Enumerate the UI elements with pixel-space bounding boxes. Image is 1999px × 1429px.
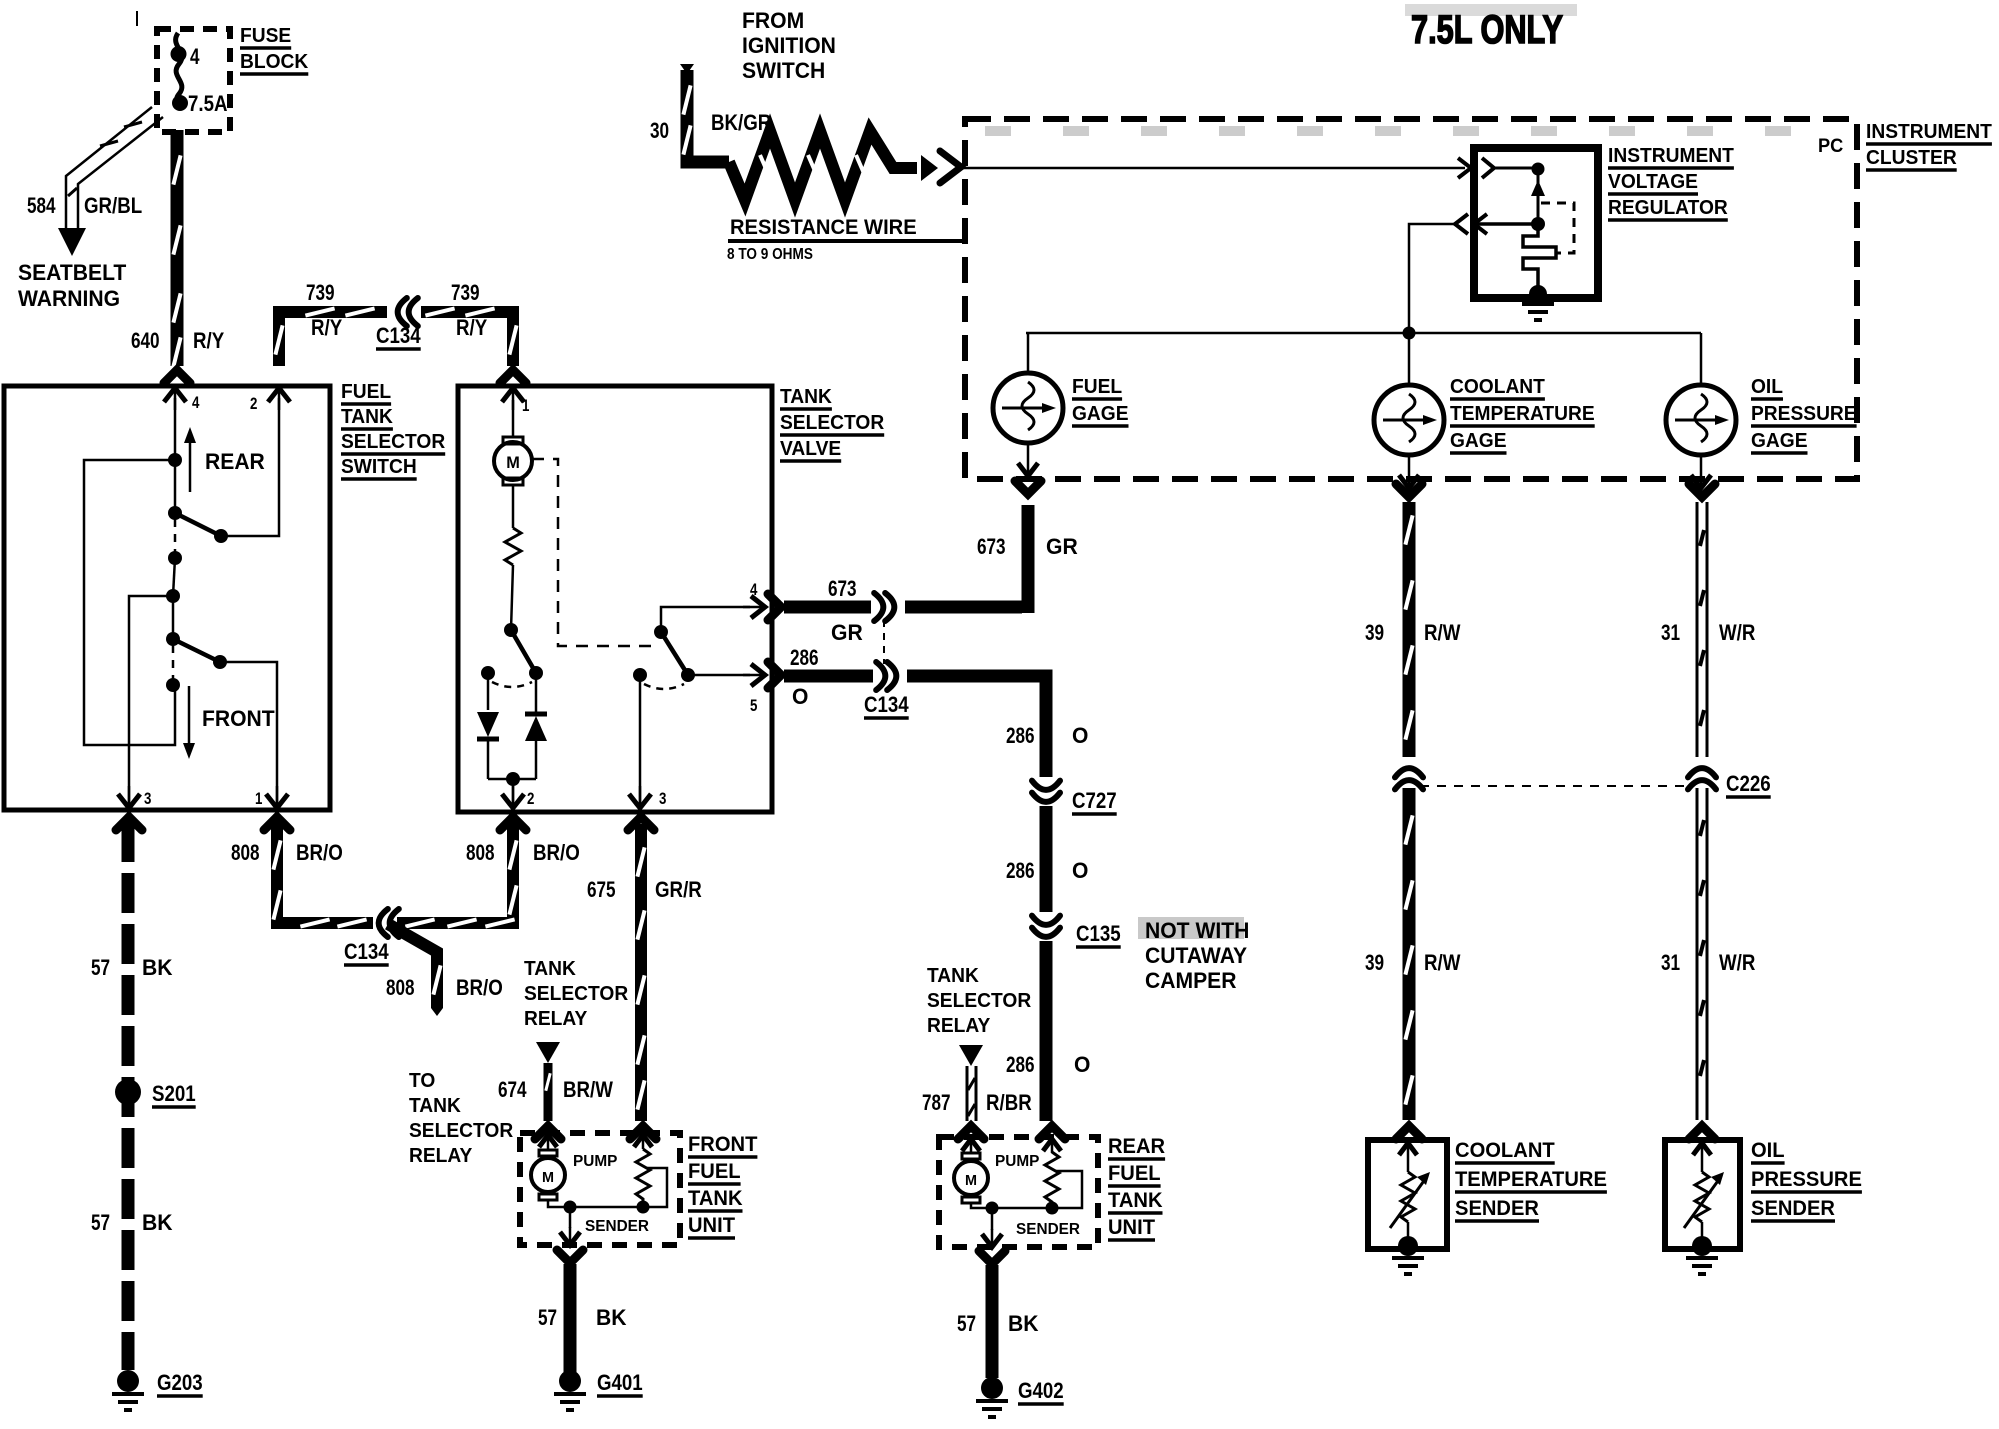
wire 39 R/W lower	[1405, 788, 1412, 1120]
instrument cluster dashed box	[965, 119, 1857, 479]
svg-text:C135: C135	[1076, 921, 1121, 946]
svg-text:GAGE: GAGE	[1072, 403, 1129, 425]
front fuel tank unit box	[520, 1126, 680, 1245]
svg-text:FUSE: FUSE	[240, 25, 291, 47]
coolant temperature sender label	[1455, 1139, 1607, 1221]
connector C727	[1032, 777, 1117, 814]
svg-text:SELECTOR: SELECTOR	[780, 412, 885, 434]
label from ignition switch	[742, 8, 836, 83]
labels 673 GR	[828, 534, 1078, 645]
wire 808 BR/O from switch pin 1 to C134	[116, 817, 373, 927]
svg-text:RELAY: RELAY	[409, 1145, 473, 1167]
wire 673 GR to fuel gage	[1022, 505, 1035, 613]
svg-text:BK: BK	[142, 1210, 173, 1235]
svg-text:SENDER: SENDER	[1016, 1221, 1080, 1238]
wire 31 W/R upper	[1689, 484, 1715, 762]
regulator internals	[1455, 158, 1574, 303]
wire 57 BK to G401	[557, 1250, 583, 1372]
rear fuel tank unit box	[939, 1126, 1098, 1247]
svg-text:R/W: R/W	[1424, 620, 1461, 645]
svg-text:SELECTOR: SELECTOR	[927, 990, 1032, 1012]
svg-text:GR: GR	[831, 620, 863, 645]
instrument cluster label	[1866, 121, 1992, 170]
switch pin 3	[118, 786, 151, 808]
label tank selector relay front	[524, 958, 629, 1030]
svg-text:787: 787	[922, 1090, 951, 1115]
svg-text:3: 3	[659, 789, 666, 808]
svg-text:M: M	[965, 1172, 977, 1189]
svg-text:PRESSURE: PRESSURE	[1751, 403, 1857, 425]
label 584 GR/BL	[27, 193, 142, 218]
svg-text:1: 1	[255, 789, 262, 808]
FRONT arrow	[183, 686, 275, 759]
C226 dashed link and label	[1420, 771, 1771, 797]
svg-text:RELAY: RELAY	[927, 1015, 991, 1037]
svg-text:BK/GR: BK/GR	[711, 110, 771, 135]
wire 286 O lower	[1040, 941, 1053, 1121]
svg-text:M: M	[506, 453, 520, 472]
ground G402	[976, 1377, 1064, 1417]
svg-text:31: 31	[1661, 620, 1680, 645]
coolant sender ground	[1392, 1256, 1424, 1260]
wire 57 BK dashed from switch pin 3	[122, 822, 135, 1370]
svg-text:SEATBELT: SEATBELT	[18, 260, 127, 285]
svg-text:BK: BK	[596, 1305, 627, 1330]
connector at switch pin 4	[164, 370, 190, 383]
label tank selector relay rear	[927, 965, 1032, 1037]
labels 39 R/W lower	[1365, 950, 1461, 975]
svg-text:FUEL: FUEL	[1072, 376, 1122, 398]
svg-text:OIL: OIL	[1751, 376, 1783, 398]
labels 57 BK left	[91, 955, 173, 1235]
svg-text:GR/BL: GR/BL	[84, 193, 142, 218]
REAR arrow	[184, 427, 265, 492]
regulator feed wire	[1409, 224, 1455, 333]
splice S201	[115, 1079, 196, 1107]
front unit output	[560, 1207, 580, 1245]
svg-text:39: 39	[1365, 620, 1384, 645]
svg-text:GAGE: GAGE	[1751, 430, 1808, 452]
svg-text:SELECTOR: SELECTOR	[524, 983, 629, 1005]
fuse block	[157, 29, 230, 132]
svg-text:PC: PC	[1818, 136, 1844, 157]
svg-text:INSTRUMENT: INSTRUMENT	[1608, 145, 1734, 167]
svg-text:57: 57	[91, 955, 110, 980]
title 7.5L ONLY	[1405, 4, 1577, 52]
connector C226 on 39 wire	[1401, 757, 1417, 793]
svg-text:57: 57	[538, 1305, 557, 1330]
labels 286 O middle	[1006, 858, 1088, 883]
labels 739 R/Y C134	[306, 280, 487, 349]
wire 286 O from valve pin 5	[768, 662, 1046, 785]
switch internal wiring	[84, 398, 279, 808]
svg-text:SELECTOR: SELECTOR	[341, 431, 446, 453]
coolant temperature gage	[1374, 333, 1444, 488]
valve pin 5	[743, 664, 765, 715]
svg-text:808: 808	[231, 840, 260, 865]
wire 57 BK to G402	[979, 1251, 1005, 1378]
oil pressure gage	[1666, 333, 1736, 488]
svg-text:SENDER: SENDER	[1455, 1197, 1539, 1220]
svg-text:TEMPERATURE: TEMPERATURE	[1455, 1168, 1607, 1191]
svg-text:PRESSURE: PRESSURE	[1751, 1168, 1862, 1191]
svg-text:2: 2	[527, 789, 534, 808]
svg-text:640: 640	[131, 328, 160, 353]
connector at valve pin 1	[500, 370, 526, 383]
svg-text:O: O	[1072, 723, 1088, 748]
svg-text:COOLANT: COOLANT	[1450, 376, 1545, 398]
label 674 BR/W	[498, 1077, 613, 1102]
svg-text:REAR: REAR	[205, 449, 265, 474]
svg-text:808: 808	[386, 975, 415, 1000]
connector above oil sender	[1689, 1126, 1715, 1139]
oil pressure sender box	[1665, 1140, 1740, 1256]
valve diode left	[477, 673, 499, 779]
fuse block label	[240, 25, 309, 74]
labels 39 R/W upper	[1365, 620, 1461, 645]
svg-text:GAGE: GAGE	[1450, 430, 1507, 452]
fuel gage	[993, 333, 1063, 476]
rear sender	[992, 1139, 1082, 1215]
svg-text:BK: BK	[142, 955, 173, 980]
front fuel tank unit label	[688, 1133, 758, 1238]
svg-text:PUMP: PUMP	[573, 1153, 618, 1170]
rear unit output	[982, 1208, 1002, 1247]
svg-text:BLOCK: BLOCK	[240, 51, 309, 73]
svg-text:O: O	[792, 684, 808, 709]
label 30 BK/GR	[650, 110, 771, 143]
svg-text:5: 5	[750, 696, 757, 715]
oil pressure gage label	[1751, 376, 1857, 453]
connector C134 on 808 wires	[374, 915, 380, 932]
wire 584 GR/BL to seatbelt warning	[58, 107, 163, 256]
svg-text:4: 4	[750, 580, 758, 599]
svg-text:FROM: FROM	[742, 8, 804, 33]
switch pin 1	[255, 786, 288, 808]
svg-text:57: 57	[91, 1210, 110, 1235]
fuel tank selector switch label	[341, 381, 446, 479]
svg-text:673: 673	[828, 576, 857, 601]
labels 31 W/R upper	[1661, 620, 1755, 645]
svg-text:WARNING: WARNING	[18, 286, 120, 311]
svg-text:R/Y: R/Y	[456, 315, 487, 340]
svg-text:SWITCH: SWITCH	[341, 456, 417, 478]
svg-text:TANK: TANK	[688, 1187, 743, 1210]
svg-text:673: 673	[977, 534, 1006, 559]
valve pin 2 node	[488, 772, 536, 808]
svg-text:FUEL: FUEL	[688, 1160, 741, 1183]
instrument voltage regulator label	[1608, 145, 1734, 220]
svg-text:584: 584	[27, 193, 56, 218]
svg-text:CUTAWAY: CUTAWAY	[1145, 943, 1247, 968]
svg-text:57: 57	[957, 1311, 976, 1336]
svg-text:M: M	[542, 1169, 554, 1186]
valve resistor	[505, 528, 521, 565]
label 57 BK G401	[538, 1305, 627, 1330]
connector above coolant sender	[1396, 1126, 1422, 1139]
front pump motor	[531, 1135, 577, 1214]
valve diode right	[525, 673, 547, 779]
svg-text:808: 808	[466, 840, 495, 865]
svg-text:GR: GR	[1046, 534, 1078, 559]
svg-text:FUEL: FUEL	[341, 381, 391, 403]
switch pin 4	[164, 388, 200, 412]
switch pin 2	[250, 388, 290, 413]
svg-text:4: 4	[190, 44, 200, 69]
svg-text:FRONT: FRONT	[202, 706, 275, 731]
wire 39 R/W upper	[1396, 484, 1422, 762]
svg-text:COOLANT: COOLANT	[1455, 1139, 1555, 1162]
svg-text:G402: G402	[1018, 1378, 1064, 1403]
seatbelt warning label	[18, 260, 127, 311]
connector C134 on 739 wire	[387, 304, 421, 320]
svg-text:NOT WITH: NOT WITH	[1145, 918, 1249, 943]
valve pin 1	[502, 388, 529, 415]
svg-text:39: 39	[1365, 950, 1384, 975]
svg-text:GR/R: GR/R	[655, 877, 702, 902]
label 675 GR/R	[587, 877, 702, 902]
svg-text:286: 286	[1006, 858, 1035, 883]
svg-text:3: 3	[144, 789, 151, 808]
tank selector relay terminal front	[536, 1042, 560, 1063]
svg-text:TANK: TANK	[341, 406, 393, 428]
svg-text:BR/O: BR/O	[533, 840, 580, 865]
svg-text:7.5L ONLY: 7.5L ONLY	[1411, 8, 1563, 52]
tank selector relay terminal rear	[959, 1045, 983, 1066]
instrument voltage regulator box	[1474, 148, 1598, 298]
svg-text:VALVE: VALVE	[780, 438, 841, 460]
label resistance wire	[727, 216, 968, 263]
svg-text:286: 286	[1006, 1052, 1035, 1077]
svg-text:VOLTAGE: VOLTAGE	[1608, 171, 1698, 193]
valve right switch	[633, 607, 750, 689]
labels 286 O lower	[1006, 1052, 1090, 1077]
resistance wire	[729, 131, 938, 200]
svg-text:8 TO 9 OHMS: 8 TO 9 OHMS	[727, 246, 813, 263]
valve dashed link	[532, 459, 658, 646]
svg-text:TANK: TANK	[780, 386, 832, 408]
svg-text:TEMPERATURE: TEMPERATURE	[1450, 403, 1595, 425]
svg-text:286: 286	[1006, 723, 1035, 748]
wire to voltage regulator	[961, 167, 1465, 170]
fuel gage label	[1072, 376, 1129, 426]
tank selector valve label	[780, 386, 885, 461]
svg-text:C727: C727	[1072, 788, 1117, 813]
page tick marks	[136, 11, 138, 26]
wire 30 BK/GR	[680, 64, 729, 162]
svg-text:O: O	[1072, 858, 1088, 883]
svg-text:BR/O: BR/O	[296, 840, 343, 865]
connector C135	[1032, 912, 1121, 948]
wire 739 R/Y	[275, 308, 516, 366]
oil sender ground	[1686, 1256, 1718, 1260]
svg-text:IGNITION: IGNITION	[742, 33, 836, 58]
rear fuel tank unit label	[1108, 1135, 1165, 1240]
wire 675 GR/R	[628, 817, 654, 1121]
svg-text:RESISTANCE WIRE: RESISTANCE WIRE	[730, 216, 917, 239]
labels 31 W/R lower	[1661, 950, 1755, 975]
svg-text:2: 2	[250, 394, 257, 413]
wire 31 W/R lower	[1697, 788, 1707, 1120]
svg-text:C134: C134	[376, 323, 421, 348]
svg-text:286: 286	[790, 645, 819, 670]
svg-text:REAR: REAR	[1108, 1135, 1165, 1158]
valve pin 4	[743, 580, 765, 618]
label 57 BK G402	[957, 1311, 1039, 1336]
svg-text:675: 675	[587, 877, 616, 902]
svg-text:FRONT: FRONT	[688, 1133, 758, 1156]
regulator ground	[1522, 302, 1554, 306]
label 640 R/Y	[131, 328, 224, 353]
tank selector valve box	[458, 386, 772, 812]
coolant temperature gage label	[1450, 376, 1595, 453]
connector below fuel gage	[1015, 481, 1041, 494]
svg-text:UNIT: UNIT	[688, 1214, 735, 1237]
labels 286 O top	[790, 645, 1088, 748]
coolant temperature sender box	[1368, 1140, 1447, 1256]
svg-text:W/R: W/R	[1719, 620, 1755, 645]
svg-text:674: 674	[498, 1077, 527, 1102]
svg-text:W/R: W/R	[1719, 950, 1755, 975]
svg-text:BR/W: BR/W	[563, 1077, 613, 1102]
svg-text:TANK: TANK	[524, 958, 576, 980]
svg-text:739: 739	[306, 280, 335, 305]
svg-text:G401: G401	[597, 1370, 643, 1395]
wire 808 BR/O branch to tank selector relay	[388, 924, 443, 1016]
valve left switch	[481, 565, 543, 687]
dashed link C134	[883, 620, 885, 664]
svg-text:UNIT: UNIT	[1108, 1216, 1155, 1239]
svg-text:TANK: TANK	[927, 965, 979, 987]
label not with cutaway camper	[1138, 917, 1249, 993]
svg-text:SELECTOR: SELECTOR	[409, 1120, 514, 1142]
svg-text:FUEL: FUEL	[1108, 1162, 1161, 1185]
svg-text:BK: BK	[1008, 1311, 1039, 1336]
svg-text:CLUSTER: CLUSTER	[1866, 147, 1957, 169]
fuel tank selector switch box	[4, 386, 330, 810]
svg-text:OIL: OIL	[1751, 1139, 1785, 1162]
labels 808 BR/O	[231, 840, 580, 1000]
label 787 R/BR	[922, 1090, 1032, 1115]
connector at instrument cluster input	[940, 151, 961, 183]
wire 640 R/Y	[173, 130, 180, 367]
svg-text:R/W: R/W	[1424, 950, 1461, 975]
svg-text:7.5A: 7.5A	[188, 91, 228, 116]
wire 787 R/BR	[967, 1066, 976, 1121]
svg-text:C134: C134	[864, 692, 909, 717]
label to tank selector relay	[409, 1070, 514, 1167]
svg-text:R/Y: R/Y	[311, 315, 342, 340]
svg-text:30: 30	[650, 118, 669, 143]
svg-text:TO: TO	[409, 1070, 435, 1092]
wire 673 GR from valve pin 4	[768, 594, 1022, 620]
oil pressure sender label	[1751, 1139, 1862, 1221]
svg-text:G203: G203	[157, 1370, 203, 1395]
connector C134 on 673 wire	[871, 599, 905, 615]
svg-text:RELAY: RELAY	[524, 1008, 588, 1030]
svg-text:31: 31	[1661, 950, 1680, 975]
svg-text:R/BR: R/BR	[986, 1090, 1032, 1115]
svg-text:4: 4	[192, 393, 200, 412]
connector C134 on 286 wire	[873, 668, 907, 684]
svg-text:739: 739	[451, 280, 480, 305]
svg-text:O: O	[1074, 1052, 1090, 1077]
svg-text:CAMPER: CAMPER	[1145, 968, 1237, 993]
ground G401	[554, 1370, 643, 1410]
svg-text:SWITCH: SWITCH	[742, 58, 825, 83]
svg-text:BR/O: BR/O	[456, 975, 503, 1000]
ground G203	[112, 1370, 203, 1410]
svg-text:1: 1	[522, 396, 529, 415]
wire 808 BR/O from valve pin 2 to C134	[397, 817, 526, 927]
svg-text:TANK: TANK	[1108, 1189, 1163, 1212]
gage bus wire	[1026, 327, 1701, 340]
svg-text:TANK: TANK	[409, 1095, 461, 1117]
valve motor M	[494, 400, 532, 528]
svg-text:REGULATOR: REGULATOR	[1608, 197, 1728, 219]
wire 286 O middle	[1040, 806, 1053, 917]
valve pin 3	[629, 675, 666, 808]
connector C226 on 31 wire	[1694, 757, 1710, 793]
svg-text:C226: C226	[1726, 771, 1771, 796]
rear pump motor	[954, 1139, 999, 1215]
svg-text:S201: S201	[152, 1081, 196, 1106]
svg-text:R/Y: R/Y	[193, 328, 224, 353]
front sender	[570, 1135, 667, 1214]
svg-text:SENDER: SENDER	[1751, 1197, 1835, 1220]
svg-text:C134: C134	[344, 939, 389, 964]
wire 674 BR/W	[546, 1063, 550, 1121]
svg-text:SENDER: SENDER	[585, 1218, 649, 1235]
svg-text:INSTRUMENT: INSTRUMENT	[1866, 121, 1992, 143]
svg-text:PUMP: PUMP	[995, 1153, 1040, 1170]
